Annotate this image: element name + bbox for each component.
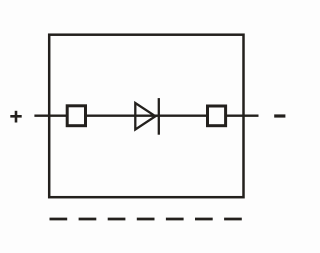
wire (left lead from + to left clamp) [34, 114, 67, 116]
minus polarity mark [274, 114, 285, 117]
terminal clamp left (square) [67, 106, 85, 126]
plus polarity mark [10, 111, 21, 123]
diode D1 [135, 98, 159, 135]
terminal clamp right (square) [208, 106, 226, 126]
wire (left clamp to diode cathode bar) [86, 114, 159, 116]
wire (diode cathode bar to right clamp) [159, 114, 208, 116]
wire (right clamp to - terminal) [226, 114, 259, 116]
module outline box [49, 35, 243, 198]
dashed marker line below module [50, 218, 242, 221]
